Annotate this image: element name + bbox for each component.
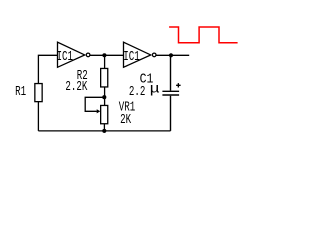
wire: R2 top lead from node A [104,55,106,68]
capacitor C1 plates [162,91,179,95]
svg-text:2.2K: 2.2K [65,78,88,95]
inverter2 output bubble [152,53,156,57]
wire: bottom bus [38,130,170,132]
wire: VR1 wiper loop [85,97,104,111]
inverter1 output bubble [86,53,90,57]
wire: R2 bottom lead to node C and VR1 top [104,87,106,105]
svg-text:IC1: IC1 [123,48,140,65]
wire: inverter1 output to inverter2 input [90,54,124,56]
svg-text:2K: 2K [120,111,132,128]
wire: right vertical through C1 [170,55,172,131]
node B junction dot [169,53,173,57]
resistor R1 [35,84,42,102]
svg-text:IC1: IC1 [57,48,74,65]
potentiometer VR1 [101,105,108,123]
op-amp U1: inverter IC1 (first) [58,42,85,67]
op-amp U2: inverter IC1 (second) [124,42,151,67]
resistor R2 [101,68,108,87]
wire: VR1 bottom lead to bus [103,124,105,131]
node D junction dot on bus [102,129,106,133]
wire: inverter2 output stub to the right [156,54,189,56]
wire: left loop from inverter1 input down to bottom bus [38,55,57,131]
VR1 wiper arrowhead [97,109,101,113]
square wave annotation [169,27,238,43]
node A junction dot [102,53,106,57]
svg-text:R1: R1 [15,83,26,100]
svg-text:μ: μ [150,81,160,97]
capacitor C1 polarity plus [176,83,181,87]
svg-text:2.2: 2.2 [129,83,146,100]
node C junction dot [102,95,106,99]
